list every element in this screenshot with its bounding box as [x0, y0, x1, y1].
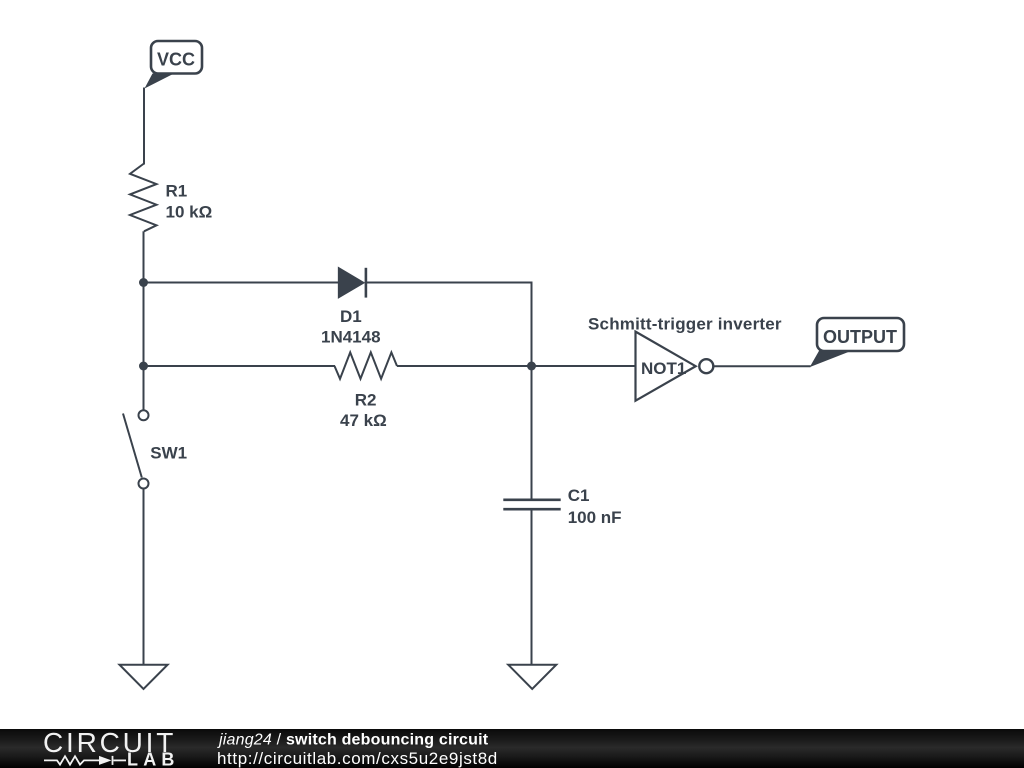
wire VCC to R1	[143, 88, 145, 165]
svg-text:R2: R2	[355, 390, 377, 409]
svg-text:LAB: LAB	[127, 749, 180, 768]
wire C1 to ground	[531, 509, 533, 665]
wire node B down to C1	[531, 366, 533, 499]
diode D1	[339, 268, 366, 298]
svg-text:1N4148: 1N4148	[321, 327, 381, 346]
svg-text:10 kΩ: 10 kΩ	[166, 203, 213, 222]
wire R1 down to SW1	[143, 231, 145, 410]
inverter NOT1	[636, 332, 714, 401]
wire node at switch to R2	[144, 365, 336, 367]
svg-text:VCC: VCC	[157, 50, 195, 70]
svg-text:C1: C1	[568, 486, 590, 505]
CircuitLab logo squiggle	[44, 756, 126, 765]
resistor R1	[130, 164, 157, 232]
footer bar	[0, 729, 1024, 768]
svg-text:jiang24 / switch debouncing ci: jiang24 / switch debouncing circuit	[217, 732, 489, 749]
wire D1 cathode to corner	[366, 283, 532, 367]
svg-text:D1: D1	[340, 307, 362, 326]
ground right	[508, 665, 556, 689]
svg-text:47 kΩ: 47 kΩ	[340, 411, 387, 430]
node B junction at C1	[527, 362, 536, 371]
svg-text:http://circuitlab.com/cxs5u2e9: http://circuitlab.com/cxs5u2e9jst8d	[217, 749, 498, 768]
svg-text:NOT1: NOT1	[641, 359, 686, 378]
ground left	[120, 665, 168, 689]
net flag OUTPUT	[810, 318, 904, 367]
svg-text:SW1: SW1	[150, 444, 187, 463]
wire R2 to NOT1 input	[397, 365, 637, 367]
switch SW1	[123, 410, 149, 488]
wire NOT1 output to OUTPUT flag	[713, 365, 810, 367]
capacitor C1	[503, 500, 560, 509]
svg-text:R1: R1	[166, 182, 188, 201]
wire node A to D1 anode	[144, 282, 340, 284]
node A junction at R1/D1	[139, 278, 148, 287]
resistor R2	[335, 352, 398, 378]
svg-text:OUTPUT: OUTPUT	[823, 327, 897, 347]
net flag VCC	[145, 41, 203, 89]
wire SW1 to ground	[143, 489, 145, 666]
svg-text:100 nF: 100 nF	[568, 508, 622, 527]
svg-text:Schmitt-trigger inverter: Schmitt-trigger inverter	[588, 315, 782, 334]
node dot at switch branch	[139, 362, 148, 371]
